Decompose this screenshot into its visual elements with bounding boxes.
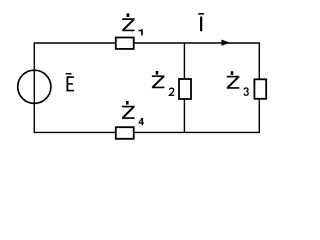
wire right rail [258, 42, 260, 133]
label I [198, 13, 204, 31]
impedance Z4 (box on bottom rail) [116, 127, 134, 139]
label Z3 [227, 71, 248, 95]
wire bottom rail [34, 131, 259, 133]
impedance Z2 (box on middle branch) [179, 79, 191, 99]
wire left rail [33, 42, 35, 133]
label Z1 [122, 13, 143, 35]
wire middle branch [183, 43, 185, 132]
label Z2 [152, 71, 174, 95]
label E [66, 73, 74, 91]
current arrow I (arrowhead on top rail) [221, 40, 230, 46]
wire top rail [34, 42, 259, 44]
impedance Z3 (box on right rail) [254, 79, 266, 99]
impedance Z1 (box on top rail) [116, 38, 134, 49]
label Z4 [122, 101, 144, 125]
voltage source E (circle) [18, 70, 51, 103]
